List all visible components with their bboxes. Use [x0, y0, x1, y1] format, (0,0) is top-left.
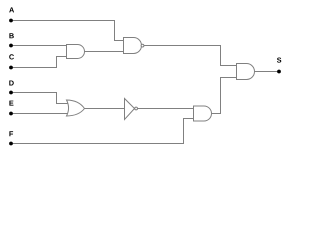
wire input D to OR U3 — [11, 93, 68, 104]
wire input F to AND U4 — [11, 119, 194, 144]
inverter U6 output bubble — [135, 107, 138, 110]
terminal dot A — [9, 19, 13, 23]
wire input A to NAND U2 — [11, 21, 124, 41]
and-gate U1 (inputs B, C) — [67, 45, 85, 59]
nand-gate U2 (inputs A, U1 out) — [124, 38, 142, 54]
terminal dot B — [9, 44, 13, 48]
terminal dot F — [9, 142, 13, 146]
label E — [9, 101, 13, 106]
terminal dot C — [9, 66, 13, 70]
label B — [9, 33, 13, 38]
wire input E to OR U3 — [11, 113, 68, 115]
and-gate U4 (inputs inverter out, F) — [194, 106, 212, 121]
inverter U6 triangle — [125, 99, 135, 120]
wire AND U1 output to NAND U2 — [85, 51, 124, 53]
nand-gate U2 output bubble — [141, 44, 144, 47]
label C — [9, 54, 14, 59]
wire input B to AND U1 — [11, 45, 67, 47]
terminal dot S — [277, 70, 281, 74]
label S — [277, 58, 281, 63]
wire inverter U6 output to AND U4 — [138, 108, 194, 110]
wire input C to AND U1 — [11, 57, 67, 68]
terminal dot D — [9, 91, 13, 95]
label A — [9, 7, 14, 12]
and-gate U5 output gate (inputs U2 out, U4 out) — [237, 64, 255, 80]
wire AND U4 output to AND U5 — [212, 78, 237, 114]
label F — [9, 131, 13, 136]
terminal dot E — [9, 112, 13, 116]
wire NAND U2 output to AND U5 — [144, 46, 237, 66]
wire OR U3 output to inverter U6 — [85, 108, 125, 110]
wire AND U5 output to S — [255, 71, 280, 73]
label D — [9, 80, 13, 85]
or-gate U3 (inputs D, E) — [67, 100, 85, 116]
